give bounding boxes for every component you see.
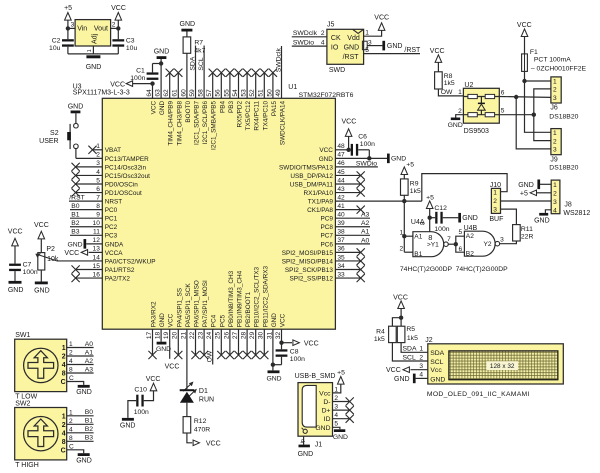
svg-text:R7: R7 bbox=[194, 39, 203, 46]
svg-text:PD0/OSCin: PD0/OSCin bbox=[105, 181, 138, 188]
svg-text:C6: C6 bbox=[358, 134, 367, 141]
svg-text:11: 11 bbox=[93, 229, 100, 236]
svg-text:2: 2 bbox=[419, 354, 423, 361]
svg-text:5: 5 bbox=[459, 229, 463, 236]
wire C6 right to pin47 GND net bbox=[358, 149, 369, 151]
svg-text:1: 1 bbox=[365, 30, 369, 37]
no-connect X pin56 bbox=[217, 69, 225, 77]
svg-text:GND: GND bbox=[271, 313, 278, 328]
svg-text:MOD_OLED_091_IIC_KAMAMI: MOD_OLED_091_IIC_KAMAMI bbox=[427, 391, 530, 398]
+5 supply triangle at J8 pin2 bbox=[530, 190, 536, 196]
OLED module J2 body bbox=[428, 344, 564, 384]
wire C10 left to GND bbox=[128, 401, 136, 418]
wire U1 pin25 stub (NC) bbox=[220, 329, 222, 355]
svg-text:26: 26 bbox=[223, 331, 230, 339]
no-connect X pin4 bbox=[72, 171, 80, 179]
svg-text:B2: B2 bbox=[85, 426, 94, 433]
no-connect X pin44 bbox=[357, 180, 365, 188]
wire R9 bottom to pin42 net bbox=[403, 195, 405, 201]
wire U1 pin61 stub (NC) bbox=[177, 73, 179, 99]
ground bar above R7 bbox=[181, 29, 192, 32]
wire F1 to J6 pin1 junction bbox=[524, 71, 526, 81]
U2 internal top wire bbox=[463, 96, 499, 98]
wire C1 top to GND bbox=[152, 64, 154, 73]
svg-text:1: 1 bbox=[458, 89, 462, 96]
connector J9 body bbox=[551, 129, 561, 155]
svg-text:SCL: SCL bbox=[198, 57, 205, 70]
svg-text:NRST: NRST bbox=[105, 199, 122, 206]
svg-text:P2: P2 bbox=[46, 246, 55, 253]
no-connect X pin29 bbox=[252, 351, 260, 359]
ground flag at C12 bbox=[458, 213, 461, 223]
voltage regulator U3 body bbox=[75, 20, 111, 46]
wire U1 pin62 stub (NC) bbox=[169, 73, 171, 99]
svg-text:GND: GND bbox=[86, 64, 102, 71]
wire SW1 pin 4 net A2 bbox=[67, 364, 94, 366]
svg-text:VCC: VCC bbox=[111, 5, 126, 12]
wire U1 pin26 stub (NC) bbox=[229, 329, 231, 355]
svg-text:ip: ip bbox=[300, 439, 306, 443]
wire R7 top to GND bar bbox=[186, 31, 188, 37]
no-connect X J1 pin3 bbox=[346, 406, 354, 414]
rotary switch SW2 body bbox=[15, 408, 67, 460]
svg-text:PC15/Osc32out: PC15/Osc32out bbox=[105, 173, 150, 180]
wire to U4B input A2 bbox=[456, 236, 465, 244]
VCC supply arrow above C10 bbox=[150, 383, 157, 391]
svg-text:2: 2 bbox=[112, 22, 116, 29]
wire U1 pin64 VCC up to C1 node bbox=[152, 84, 154, 99]
junction pin48/C6/VCC bbox=[346, 148, 350, 152]
wire +5 node to U3 pin3 bbox=[68, 27, 75, 29]
capacitor C2 bbox=[62, 39, 74, 41]
no-connect X pin1 bbox=[88, 146, 96, 154]
wire U1 pin29 stub (NC) bbox=[255, 329, 257, 355]
wire R4 bottom to SCL / J2 pin2 bbox=[392, 343, 427, 361]
svg-text:6: 6 bbox=[501, 89, 505, 96]
svg-text:DS18B20: DS18B20 bbox=[549, 113, 578, 120]
svg-text:5: 5 bbox=[501, 108, 505, 115]
svg-text:1: 1 bbox=[334, 386, 338, 393]
P2 wiper arrow bbox=[38, 255, 58, 261]
wire U1 pin7 /RST stub bbox=[69, 200, 102, 202]
svg-text:3: 3 bbox=[334, 404, 338, 411]
wire U1 pin51 stub (NC) bbox=[263, 73, 265, 99]
svg-text:37: 37 bbox=[337, 237, 345, 244]
svg-text:PA0/CTS2/WKUP: PA0/CTS2/WKUP bbox=[105, 258, 156, 265]
svg-text:2: 2 bbox=[321, 30, 325, 37]
svg-text:4: 4 bbox=[62, 430, 66, 437]
svg-text:1: 1 bbox=[553, 182, 557, 189]
svg-text:CK1/PA8: CK1/PA8 bbox=[307, 207, 333, 214]
svg-text:R5: R5 bbox=[406, 326, 415, 333]
junction U4A input A1 bbox=[402, 234, 406, 238]
svg-text:BUF: BUF bbox=[489, 216, 503, 223]
svg-text:VCC: VCC bbox=[319, 147, 333, 154]
svg-text:2: 2 bbox=[400, 245, 404, 252]
wire pin32 to VCC triangle bbox=[282, 342, 293, 344]
svg-text:A0: A0 bbox=[361, 237, 370, 244]
wire U1 pin1 stub (NC) bbox=[93, 149, 103, 151]
svg-text:PA6/SPI1_MISO: PA6/SPI1_MISO bbox=[194, 280, 201, 327]
VCC supply triangle pin64 bbox=[126, 81, 132, 87]
svg-text:+5: +5 bbox=[337, 370, 345, 377]
wire to U4B input B2 bbox=[456, 244, 465, 252]
svg-text:58: 58 bbox=[198, 89, 205, 97]
svg-text:GND: GND bbox=[391, 156, 406, 163]
no-connect X pin27 bbox=[234, 351, 242, 359]
svg-text:RX5/PD2: RX5/PD2 bbox=[237, 100, 244, 127]
svg-text:10u: 10u bbox=[126, 45, 138, 52]
svg-text:VCC: VCC bbox=[206, 440, 221, 447]
resistor R12 bbox=[183, 417, 191, 433]
svg-text:1: 1 bbox=[400, 229, 404, 236]
junction R9/pin42/U4A bbox=[402, 199, 406, 203]
wire U1 pin40 net A3 bbox=[335, 217, 370, 219]
svg-text:USB_DP/PA12: USB_DP/PA12 bbox=[290, 173, 333, 180]
svg-text:GNDA: GNDA bbox=[105, 241, 124, 248]
wire U3 Vout to VCC node bbox=[111, 27, 119, 29]
svg-text:SDA: SDA bbox=[430, 350, 444, 357]
USB connector J1 body bbox=[298, 383, 333, 437]
VCC supply arrow at J5 bbox=[378, 23, 385, 31]
svg-text:2: 2 bbox=[553, 87, 557, 94]
svg-text:3: 3 bbox=[553, 199, 557, 206]
wire SW2 pin 8 net B3 bbox=[67, 440, 94, 442]
no-connect X pin15 bbox=[72, 265, 80, 273]
svg-text:3: 3 bbox=[71, 22, 75, 29]
ground flag at pin12 bbox=[84, 239, 87, 249]
junction VCC/R4/R5 bbox=[399, 316, 403, 320]
junction pin31/C8 bbox=[271, 363, 275, 367]
J1 shield contact bbox=[303, 429, 307, 433]
svg-text:RX4/PC11: RX4/PC11 bbox=[254, 100, 261, 130]
svg-text:1k5: 1k5 bbox=[410, 188, 421, 195]
svg-text:VCC: VCC bbox=[168, 313, 175, 327]
pushbutton S2 actuator bbox=[69, 124, 71, 149]
svg-text:GND: GND bbox=[333, 434, 348, 441]
wire VCC node down to C3 bbox=[117, 28, 119, 39]
resistor R9 bbox=[401, 179, 409, 195]
ground bar pin31 bbox=[268, 370, 280, 373]
no-connect X pin62 bbox=[166, 69, 174, 77]
VCC supply arrow above F1 bbox=[521, 29, 528, 37]
connector J10 body bbox=[491, 188, 500, 213]
svg-text:61: 61 bbox=[172, 89, 179, 97]
svg-text:IO: IO bbox=[331, 44, 339, 51]
wire U1 pin20 stub (NC) bbox=[177, 329, 179, 355]
svg-text:PC8: PC8 bbox=[320, 224, 333, 231]
wire pin42 net up to J10 pin1 bbox=[422, 174, 507, 202]
svg-text:A3: A3 bbox=[85, 366, 94, 373]
ground bar at J1 pin5 bbox=[334, 429, 345, 432]
resistor R11 bbox=[513, 225, 521, 241]
junction VCC/C3/U3.Vout bbox=[116, 26, 120, 30]
svg-text:SPI2_MOSI/PB15: SPI2_MOSI/PB15 bbox=[282, 250, 334, 257]
wire +5 node down to C2 bbox=[67, 28, 69, 39]
svg-text:A2: A2 bbox=[466, 233, 474, 240]
svg-text:SDA: SDA bbox=[403, 346, 417, 353]
wire OW down to J9 pin3 bbox=[516, 97, 551, 149]
svg-text:DS9503: DS9503 bbox=[464, 128, 489, 135]
wire U1 pin14 to P2 wiper bbox=[57, 260, 102, 262]
svg-text:USB-B_SMD: USB-B_SMD bbox=[295, 373, 336, 380]
svg-text:SCL: SCL bbox=[403, 354, 416, 361]
wire SW1 pin 1 net A0 bbox=[67, 347, 94, 349]
svg-text:I2C1_SDA/PB7: I2C1_SDA/PB7 bbox=[194, 100, 201, 144]
svg-text:4: 4 bbox=[553, 207, 557, 214]
wire U1 pin32 VCC down bbox=[281, 329, 283, 349]
svg-text:100n: 100n bbox=[130, 75, 145, 82]
VCC supply arrow above P2 bbox=[38, 231, 45, 239]
capacitor C12 bbox=[435, 212, 437, 224]
svg-text:C7: C7 bbox=[23, 261, 32, 268]
svg-text:VCC: VCC bbox=[386, 367, 401, 374]
no-connect X pin36 bbox=[357, 248, 365, 256]
junction C1/pin63 bbox=[159, 61, 163, 65]
svg-text:C1: C1 bbox=[136, 68, 145, 75]
svg-text:SPI2_SS/PB12: SPI2_SS/PB12 bbox=[290, 275, 334, 282]
no-connect X pin22 bbox=[191, 351, 199, 359]
rotary switch SW1 body bbox=[15, 339, 67, 391]
svg-text:D+: D+ bbox=[322, 408, 331, 415]
U2 internal resistor top-left bbox=[468, 94, 477, 98]
svg-text:TX5/PC12: TX5/PC12 bbox=[245, 100, 252, 130]
svg-text:36: 36 bbox=[337, 246, 345, 253]
no-connect X pin34 bbox=[357, 265, 365, 273]
potentiometer P2 body bbox=[38, 253, 45, 270]
svg-text:Vcc: Vcc bbox=[319, 390, 331, 397]
svg-text:1: 1 bbox=[553, 78, 557, 85]
svg-text:PB10/I2C2_SCL/TX3: PB10/I2C2_SCL/TX3 bbox=[254, 266, 261, 327]
svg-text:20: 20 bbox=[172, 331, 179, 339]
svg-text:+5: +5 bbox=[64, 5, 72, 12]
svg-text:63: 63 bbox=[155, 89, 162, 97]
svg-text:VCC: VCC bbox=[110, 81, 125, 88]
wire U1 pin22 stub (NC) bbox=[195, 329, 197, 355]
svg-text:D-: D- bbox=[323, 399, 330, 406]
no-connect X pin61 bbox=[174, 69, 182, 77]
svg-text:C3: C3 bbox=[126, 37, 135, 44]
wire U1 pin21 to LED D1 bbox=[186, 329, 188, 389]
wire U1 pin19 VCC stub bbox=[169, 329, 171, 359]
svg-text:50: 50 bbox=[266, 89, 273, 97]
LED D1 cathode bar bbox=[180, 389, 194, 391]
svg-text:3: 3 bbox=[553, 147, 557, 154]
no-connect X pin51 bbox=[260, 69, 268, 77]
wire J1 pin4 stub (NC) bbox=[333, 418, 350, 420]
ground bar at U2 pin2 bbox=[451, 118, 460, 121]
svg-text:GND: GND bbox=[67, 241, 82, 248]
wire U1 pin17 stub (NC) bbox=[152, 329, 154, 355]
svg-text:2: 2 bbox=[62, 354, 66, 361]
svg-text:OW: OW bbox=[207, 350, 214, 362]
SW2 arrow cross bbox=[28, 419, 54, 447]
svg-text:GND: GND bbox=[34, 287, 50, 294]
svg-text:4: 4 bbox=[334, 412, 338, 419]
wire SW1 common pin to GND bbox=[67, 382, 84, 385]
wire U1 pin9 net B1 bbox=[70, 217, 102, 219]
wire S2 to U1 pin2 bbox=[75, 149, 77, 159]
ground bar above pin63 bbox=[157, 56, 167, 59]
ground flag pin47 bbox=[387, 154, 390, 164]
VCC supply arrow above C7 bbox=[12, 238, 19, 246]
svg-text:C2: C2 bbox=[52, 37, 61, 44]
VCC arrow above pin48 bbox=[345, 129, 352, 137]
svg-text:100n: 100n bbox=[290, 356, 305, 363]
no-connect X pin26 bbox=[226, 351, 234, 359]
svg-text:7: 7 bbox=[96, 194, 100, 201]
svg-text:B3: B3 bbox=[71, 229, 80, 236]
svg-text:GND: GND bbox=[534, 217, 550, 224]
wire VCC to J6 pin1 bbox=[525, 80, 551, 82]
svg-text:40: 40 bbox=[337, 212, 345, 219]
ground bar at J8 pin4 bbox=[539, 213, 548, 216]
no-connect X J1 pin2 bbox=[346, 397, 354, 405]
wire U4A power pin to C12 node bbox=[429, 218, 431, 232]
wire U1 pin30 stub (NC) bbox=[263, 329, 265, 355]
junction data J6/J9 bbox=[532, 113, 536, 117]
wire U1 pin11 net B3 bbox=[70, 234, 102, 236]
svg-text:4: 4 bbox=[96, 169, 100, 176]
svg-text:A0: A0 bbox=[85, 341, 94, 348]
svg-text:1: 1 bbox=[62, 345, 66, 352]
wire J1 pin2 stub (NC) bbox=[333, 401, 350, 403]
VCC supply arrow above R5 bbox=[398, 301, 405, 309]
svg-text:VCC: VCC bbox=[34, 222, 49, 229]
svg-text:57: 57 bbox=[206, 89, 213, 97]
IC U1 microcontroller STM32F072RBT6 body bbox=[102, 98, 335, 329]
no-connect X pin53 bbox=[243, 69, 251, 77]
svg-text:+5: +5 bbox=[520, 190, 528, 197]
svg-text:A1: A1 bbox=[414, 233, 422, 240]
junction U4A out / U4B inputs bbox=[454, 242, 458, 246]
ground symbol under U3 bbox=[86, 55, 100, 58]
no-connect X pin57 bbox=[209, 69, 217, 77]
svg-text:56: 56 bbox=[215, 89, 222, 97]
svg-text:PA1/RTS2: PA1/RTS2 bbox=[105, 267, 135, 274]
wire U1 pin23 stub (NC) bbox=[203, 329, 205, 355]
svg-text:48: 48 bbox=[337, 143, 345, 150]
svg-text:A2: A2 bbox=[361, 220, 370, 227]
svg-text:R11: R11 bbox=[521, 226, 533, 233]
wire U1 pin38 net A1 bbox=[335, 234, 370, 236]
no-connect X pin5 bbox=[72, 180, 80, 188]
svg-text:S2: S2 bbox=[50, 130, 59, 137]
svg-text:PC5: PC5 bbox=[219, 314, 226, 327]
wire U1 pin10 net B2 bbox=[70, 226, 102, 228]
LED D1 emission arrows bbox=[183, 383, 195, 399]
svg-text:1: 1 bbox=[493, 189, 497, 196]
wire U1 pin6 stub (NC) bbox=[76, 192, 103, 194]
wire U4A output bbox=[448, 243, 456, 245]
svg-text:1: 1 bbox=[62, 413, 66, 420]
junction C6/pin47 bbox=[367, 156, 371, 160]
svg-text:1k5: 1k5 bbox=[374, 336, 385, 343]
svg-text:A3: A3 bbox=[361, 212, 370, 219]
svg-text:VCC: VCC bbox=[165, 363, 180, 370]
svg-text:J10: J10 bbox=[490, 182, 501, 189]
ground bar under C10 bbox=[122, 418, 134, 421]
svg-text:SWDIO/TMS/PA13: SWDIO/TMS/PA13 bbox=[279, 164, 333, 171]
no-connect X pin55 bbox=[226, 69, 234, 77]
svg-text:GND: GND bbox=[315, 425, 330, 432]
svg-text:4: 4 bbox=[419, 372, 423, 379]
wire U2 pin6 OW to J6 pin3 bbox=[499, 96, 551, 99]
svg-text:4: 4 bbox=[62, 362, 66, 369]
svg-text:C: C bbox=[61, 379, 66, 386]
svg-text:SWDclk: SWDclk bbox=[293, 30, 318, 37]
svg-text:10: 10 bbox=[93, 220, 101, 227]
U2 internal resistor top-right bbox=[485, 94, 494, 98]
svg-text:VCC: VCC bbox=[64, 250, 79, 257]
LED D1 body bbox=[180, 392, 194, 403]
SW1 arrow cross bbox=[28, 351, 54, 379]
svg-text:GND: GND bbox=[76, 457, 92, 464]
wire J8 pin1 to GND flag bbox=[540, 183, 551, 185]
wire S2 top to GND bbox=[75, 113, 77, 123]
svg-text:21: 21 bbox=[180, 331, 187, 339]
svg-text:64: 64 bbox=[146, 89, 153, 97]
svg-text:22: 22 bbox=[189, 331, 196, 339]
wire J1 pin3 stub (NC) bbox=[333, 409, 350, 411]
no-connect X pin6 bbox=[72, 188, 80, 196]
wire U1 pin3 stub (NC) bbox=[76, 166, 103, 168]
svg-text:PB0/IN8/TIM3_CH3: PB0/IN8/TIM3_CH3 bbox=[228, 270, 235, 327]
svg-text:29: 29 bbox=[249, 331, 256, 339]
svg-text:2: 2 bbox=[553, 138, 557, 145]
svg-text:GND: GND bbox=[430, 377, 445, 384]
svg-text:2: 2 bbox=[96, 152, 100, 159]
no-connect X pin35 bbox=[357, 257, 365, 265]
wire U2 pin2 to GND bbox=[456, 115, 464, 118]
svg-text:VCC: VCC bbox=[304, 340, 319, 347]
wire J1 shield to GND bbox=[303, 436, 305, 444]
svg-text:2: 2 bbox=[62, 422, 66, 429]
ground bar above S2 bbox=[71, 111, 81, 114]
wire SW2 pin 2 net B1 bbox=[67, 423, 94, 425]
svg-text:41: 41 bbox=[337, 203, 345, 210]
svg-text:SWDclk: SWDclk bbox=[275, 48, 282, 73]
wire U3 Adj pin to rail bbox=[92, 46, 94, 54]
U4A output bubble bbox=[444, 242, 449, 247]
GND rail under U3 bbox=[68, 53, 118, 55]
svg-text:R12: R12 bbox=[194, 418, 207, 425]
svg-text:SWDio: SWDio bbox=[356, 160, 377, 167]
svg-text:R9: R9 bbox=[410, 180, 419, 187]
svg-text:49: 49 bbox=[275, 89, 282, 97]
svg-text:J2: J2 bbox=[425, 337, 433, 344]
wire U1 pin56 stub (NC) bbox=[220, 73, 222, 99]
svg-text:6: 6 bbox=[459, 246, 463, 253]
svg-text:8: 8 bbox=[428, 233, 432, 242]
svg-text:GND: GND bbox=[76, 389, 92, 396]
svg-text:13: 13 bbox=[93, 246, 101, 253]
svg-text:16: 16 bbox=[93, 271, 101, 278]
VCC supply triangle pin13 bbox=[81, 250, 87, 256]
svg-text:62: 62 bbox=[163, 89, 170, 97]
svg-text:100n: 100n bbox=[134, 409, 149, 416]
svg-text:PA4/SPI1_SS: PA4/SPI1_SS bbox=[176, 288, 183, 327]
U2 internal resistor bottom-right bbox=[485, 113, 494, 117]
svg-text:74HC(T)2G00DP: 74HC(T)2G00DP bbox=[456, 266, 509, 273]
svg-text:PC0: PC0 bbox=[105, 207, 118, 214]
svg-text:GND: GND bbox=[344, 44, 360, 51]
ground bar pin18 bbox=[157, 342, 167, 345]
svg-text:24: 24 bbox=[206, 331, 213, 339]
svg-text:C12: C12 bbox=[434, 205, 447, 212]
ground bar under C7 bbox=[9, 281, 22, 284]
svg-text:6: 6 bbox=[96, 186, 100, 193]
